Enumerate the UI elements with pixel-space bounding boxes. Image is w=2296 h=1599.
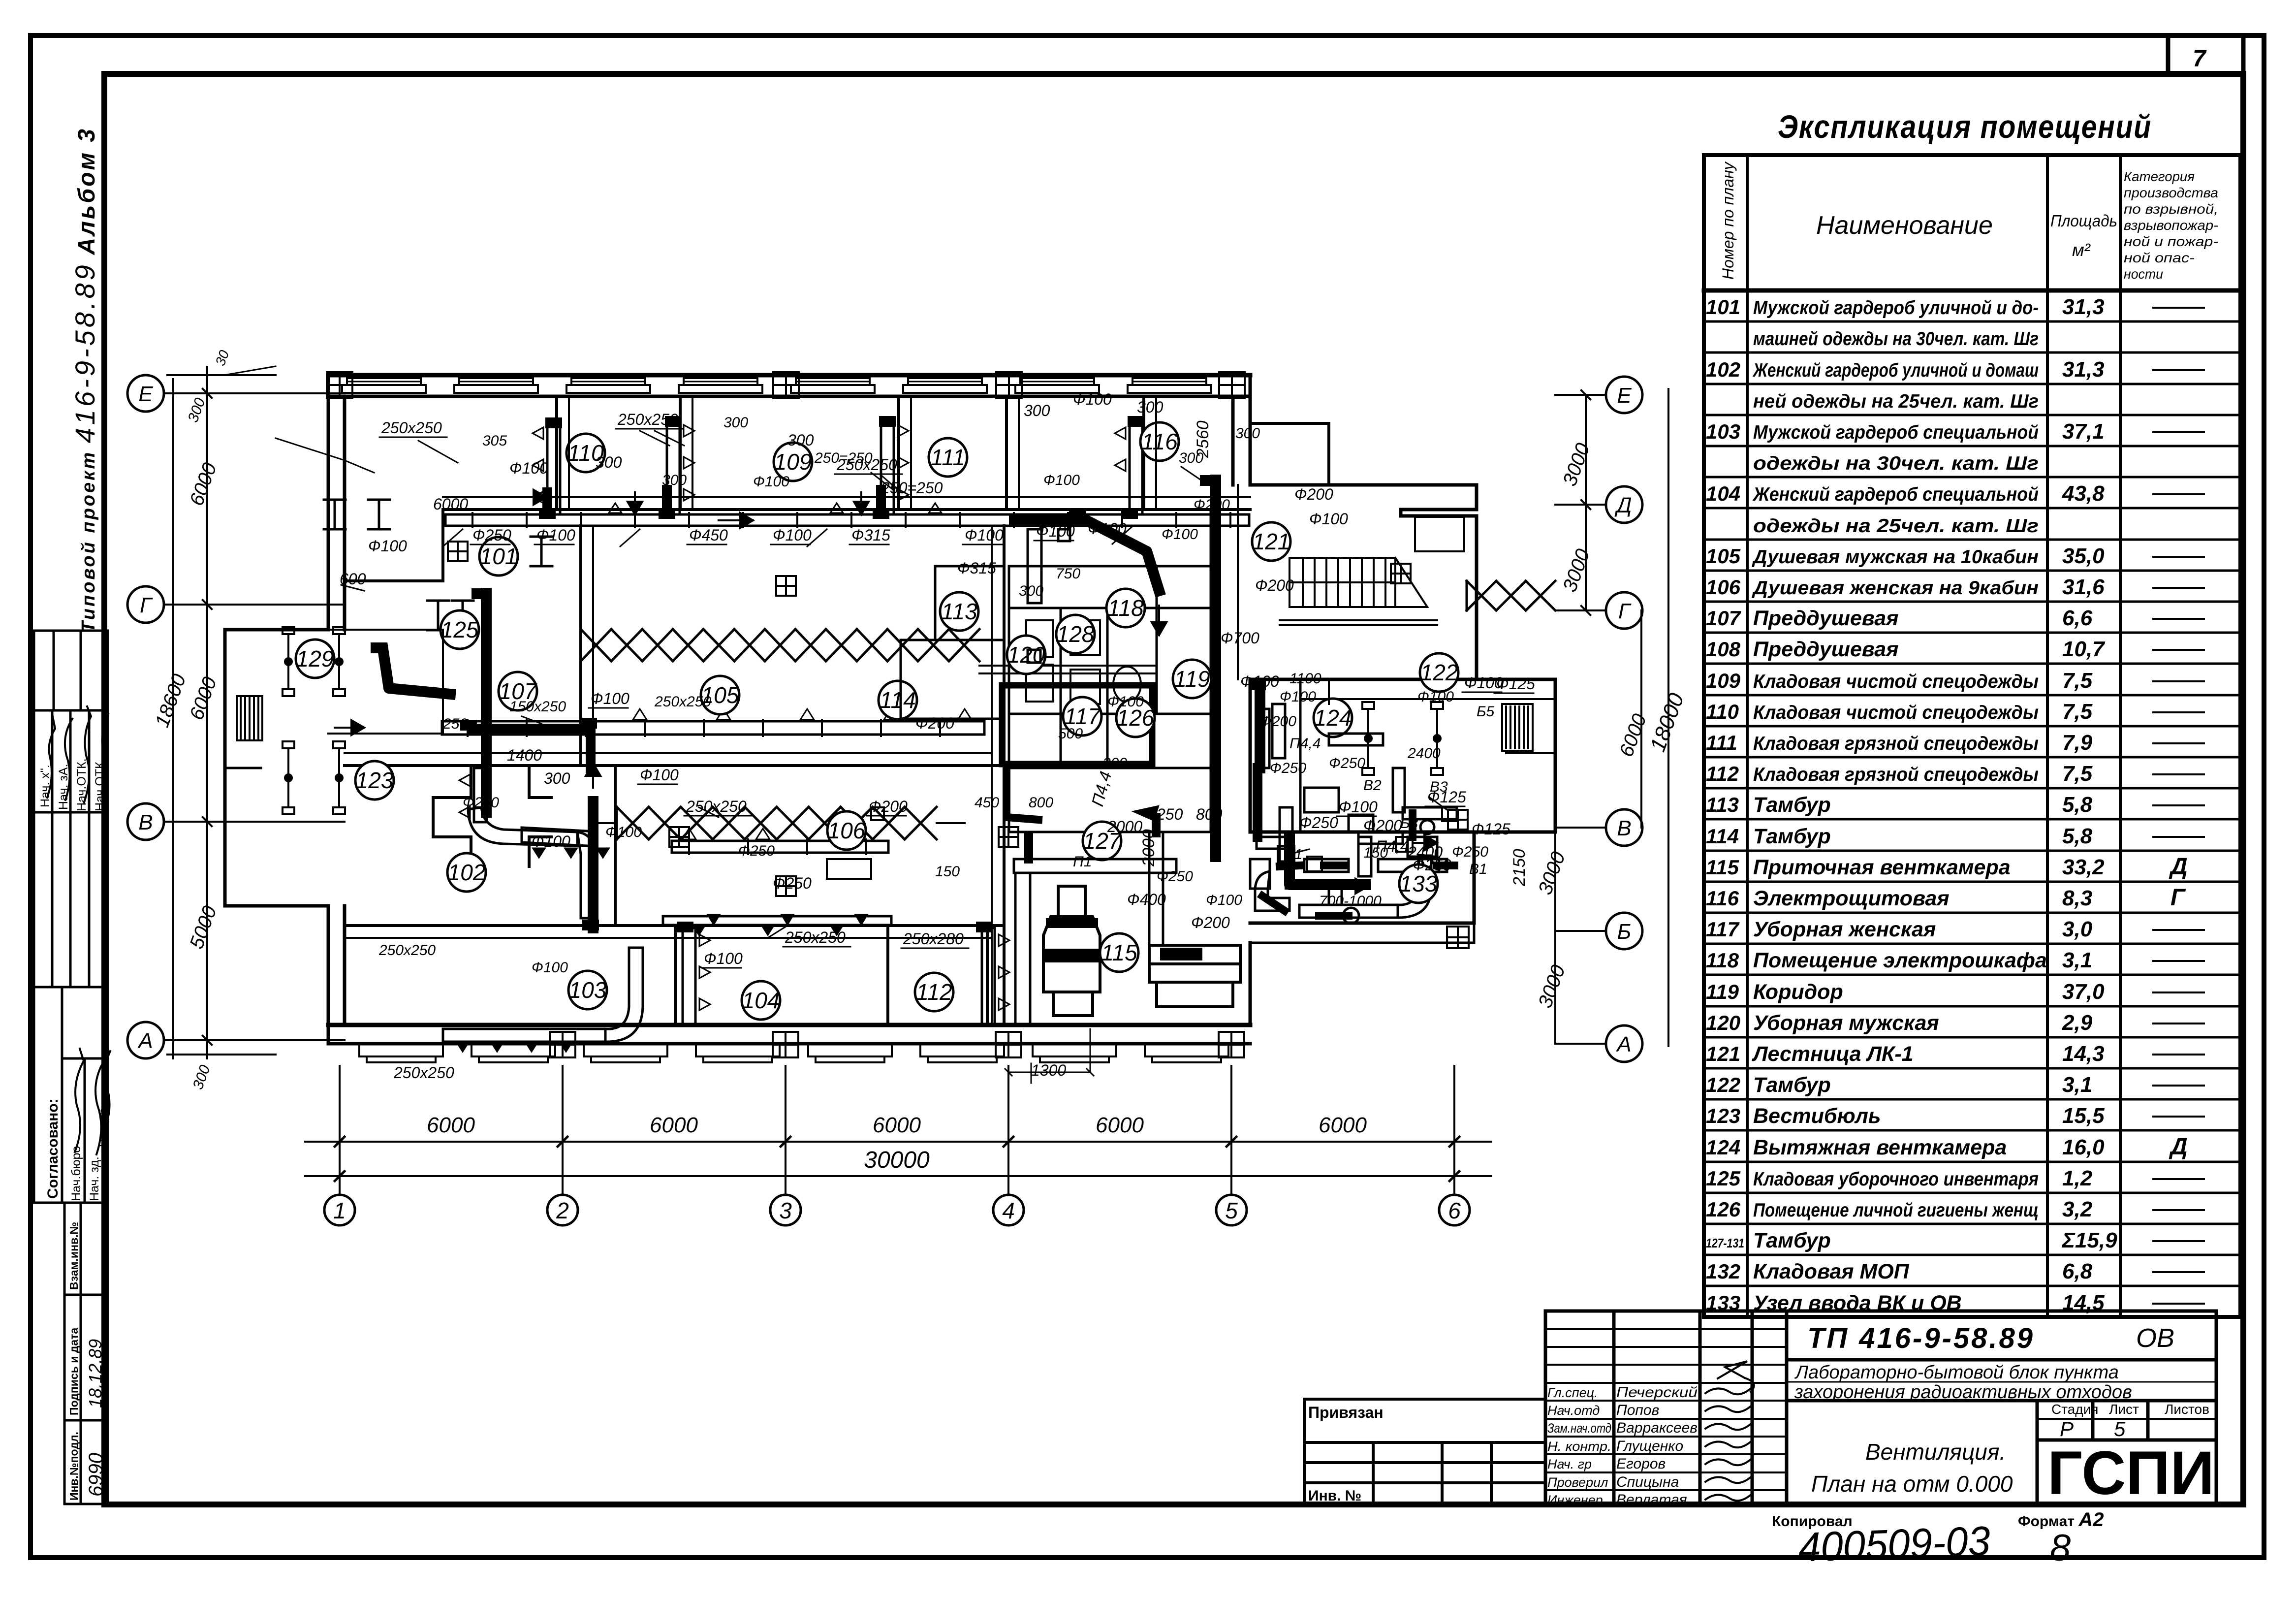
duct cluster room 127 (1014, 832, 1176, 1024)
svg-text:Н. контр.: Н. контр. (1547, 1439, 1611, 1454)
room 123 partial walls (433, 766, 551, 866)
svg-text:127-131: 127-131 (1706, 1236, 1744, 1250)
svg-text:111: 111 (931, 445, 965, 470)
svg-text:14,3: 14,3 (2062, 1042, 2105, 1066)
extra black thick runs (472, 490, 1312, 885)
svg-text:Тамбур: Тамбур (1753, 1229, 1831, 1252)
svg-text:Ф100: Ф100 (536, 526, 575, 544)
svg-text:Б5: Б5 (1477, 704, 1495, 720)
svg-text:Ф200: Ф200 (1255, 576, 1294, 594)
svg-text:300: 300 (787, 431, 814, 449)
bottom axis extension lines (340, 1066, 1454, 1194)
svg-text:Ф100: Ф100 (1464, 674, 1503, 692)
svg-text:В: В (1617, 816, 1631, 840)
svg-text:П1: П1 (1073, 854, 1092, 870)
svg-text:10,7: 10,7 (2062, 637, 2106, 661)
svg-text:ТП 416-9-58.89: ТП 416-9-58.89 (1807, 1322, 2035, 1354)
svg-text:м²: м² (2072, 240, 2091, 260)
explication header texts (1719, 161, 2218, 282)
svg-text:111: 111 (1706, 731, 1737, 754)
svg-text:Ф100: Ф100 (532, 832, 570, 850)
svg-text:110: 110 (1706, 700, 1739, 723)
svg-text:8,3: 8,3 (2062, 886, 2092, 910)
small arrows on ducts (335, 490, 1437, 894)
svg-text:1: 1 (333, 1198, 346, 1223)
left stamp rotated texts (38, 758, 109, 1201)
svg-text:Ф315: Ф315 (957, 559, 996, 577)
small square column marks inside plan (776, 576, 796, 596)
svg-text:Б3: Б3 (1400, 815, 1418, 831)
svg-text:103: 103 (569, 977, 607, 1003)
122 door grille (1502, 704, 1533, 751)
room 115 equipment (1043, 886, 1240, 1016)
right axis circles (1606, 377, 1642, 413)
svg-text:Ф250: Ф250 (472, 526, 511, 544)
svg-text:Ф100: Ф100 (965, 526, 1004, 544)
svg-text:Приточная венткамера: Приточная венткамера (1753, 856, 2011, 879)
svg-text:6000: 6000 (1096, 1113, 1144, 1137)
duct elbows annex (468, 807, 596, 918)
svg-text:Р: Р (2060, 1417, 2074, 1440)
svg-text:133: 133 (1400, 871, 1438, 896)
duct crossing marks in 106 (596, 807, 965, 879)
svg-text:Ф200: Ф200 (463, 795, 499, 811)
svg-text:по взрывной,: по взрывной, (2124, 201, 2218, 217)
svg-text:7,5: 7,5 (2062, 669, 2093, 693)
svg-text:Г: Г (1618, 599, 1632, 623)
svg-text:6000: 6000 (1319, 1113, 1367, 1137)
stairs (1280, 558, 1437, 625)
svg-text:3,2: 3,2 (2062, 1197, 2093, 1221)
svg-text:В1: В1 (1285, 846, 1303, 863)
svg-text:Инженер: Инженер (1547, 1493, 1603, 1507)
svg-text:800: 800 (1196, 805, 1223, 823)
right vertical dimension lines (1555, 389, 1668, 1046)
svg-text:Ф100: Ф100 (640, 766, 679, 784)
svg-text:3,1: 3,1 (2062, 948, 2092, 972)
duct run from 102 up (443, 948, 643, 1042)
svg-text:Е: Е (1617, 384, 1632, 408)
svg-text:Ф100: Ф100 (1206, 892, 1242, 908)
svg-text:31,6: 31,6 (2062, 575, 2105, 599)
svg-text:16,0: 16,0 (2062, 1135, 2105, 1159)
svg-text:ности: ности (2124, 266, 2163, 282)
svg-text:Ф450: Ф450 (689, 526, 728, 544)
svg-text:6990: 6990 (85, 1453, 107, 1497)
extra duct elbows 133 (1250, 832, 1431, 924)
svg-text:Наименование: Наименование (1816, 211, 1993, 240)
svg-text:150x250: 150x250 (509, 699, 566, 715)
svg-text:Инв. №: Инв. № (1308, 1488, 1361, 1504)
svg-text:123: 123 (356, 768, 394, 793)
svg-text:250x250: 250x250 (381, 419, 442, 437)
svg-text:Ф100: Ф100 (605, 824, 642, 840)
svg-text:Ф100: Ф100 (368, 537, 407, 555)
duct joint ticks on mains (468, 513, 1230, 854)
svg-text:Ф200: Ф200 (1294, 485, 1333, 503)
small zigzag right (1467, 581, 1555, 610)
small attach table bottom-left of title block (1304, 1399, 1545, 1504)
explication table grid (1704, 155, 2240, 1317)
wc fixtures (1026, 620, 1141, 704)
svg-text:5,8: 5,8 (2062, 824, 2093, 848)
svg-text:8: 8 (2050, 1527, 2071, 1569)
svg-text:Д: Д (1614, 493, 1632, 517)
svg-text:15,5: 15,5 (2062, 1104, 2105, 1128)
svg-text:Кладовая чистой спецодежды: Кладовая чистой спецодежды (1753, 702, 2039, 723)
svg-text:6,6: 6,6 (2062, 606, 2093, 630)
svg-text:114: 114 (880, 687, 915, 713)
svg-text:Экспликация помещений: Экспликация помещений (1778, 108, 2152, 145)
svg-text:ной опас-: ной опас- (2124, 250, 2195, 265)
svg-text:Кладовая чистой спецодежды: Кладовая чистой спецодежды (1753, 671, 2039, 692)
svg-text:Варраксеев: Варраксеев (1616, 1420, 1698, 1436)
svg-text:В1: В1 (1469, 861, 1487, 877)
svg-text:31,3: 31,3 (2062, 357, 2105, 382)
svg-text:Привязан: Привязан (1308, 1404, 1384, 1421)
svg-text:3: 3 (779, 1198, 792, 1223)
extra window mullion lines top wall (347, 381, 1206, 383)
svg-text:112: 112 (916, 979, 952, 1005)
stair block 121 outline (1250, 485, 1477, 679)
dim 1300 under fan (1005, 1029, 1094, 1076)
svg-text:Попов: Попов (1616, 1402, 1659, 1418)
explication table rows (1704, 308, 2240, 1317)
left margin inventory table (Взам.инв / Подпись и дата / Инв.подл.) (64, 1203, 108, 1504)
svg-text:108: 108 (1706, 638, 1741, 661)
svg-text:31,3: 31,3 (2062, 295, 2105, 319)
thick duct elbow room 101 (383, 480, 1366, 928)
svg-text:Листов: Листов (2165, 1402, 2209, 1417)
svg-text:Нач.ОТК.: Нач.ОТК. (75, 758, 89, 811)
left stamp signatures (scribbles) (47, 706, 110, 1154)
svg-text:Кладовая уборочного инвентаря: Кладовая уборочного инвентаря (1753, 1169, 2039, 1190)
extra annotations dense band (378, 415, 1495, 976)
svg-text:Категория: Категория (2124, 169, 2195, 184)
svg-text:П4,4: П4,4 (1290, 736, 1321, 752)
svg-text:1100: 1100 (1290, 671, 1321, 687)
svg-text:Тамбур: Тамбур (1753, 793, 1831, 817)
svg-text:Нач.бюро: Нач.бюро (69, 1146, 83, 1201)
svg-text:115: 115 (1101, 940, 1137, 965)
svg-text:В3: В3 (1430, 779, 1448, 795)
svg-text:Г: Г (2170, 885, 2186, 911)
svg-text:2150: 2150 (1510, 849, 1529, 887)
svg-text:Б: Б (1617, 920, 1632, 944)
svg-text:Проверил: Проверил (1547, 1475, 1608, 1490)
svg-text:Верлатая: Верлатая (1616, 1492, 1687, 1508)
svg-text:Гл.спец.: Гл.спец. (1547, 1385, 1598, 1400)
svg-text:300: 300 (1235, 425, 1260, 442)
svg-text:6000: 6000 (873, 1113, 921, 1137)
svg-text:117: 117 (1706, 918, 1740, 941)
left axis circles (127, 375, 164, 412)
svg-text:2400: 2400 (1407, 745, 1441, 762)
svg-text:Коридор: Коридор (1753, 980, 1843, 1004)
svg-text:Уборная мужская: Уборная мужская (1753, 1011, 1939, 1035)
svg-text:115: 115 (1706, 856, 1739, 879)
svg-text:124: 124 (1314, 705, 1352, 731)
svg-text:Женский гардероб уличной и дом: Женский гардероб уличной и домаш (1752, 360, 2039, 381)
svg-text:Ф250: Ф250 (1270, 760, 1306, 776)
svg-text:Преддушевая: Преддушевая (1753, 638, 1899, 661)
svg-text:взрывопожар-: взрывопожар- (2124, 218, 2218, 233)
svg-text:Ф100: Ф100 (704, 950, 743, 967)
svg-text:Тамбур: Тамбур (1753, 1073, 1831, 1097)
duct size annotations (340, 390, 1535, 1082)
interior cluster walls (117/120/126/128/118) (1009, 510, 1211, 832)
left margin document designation rotated text (69, 127, 100, 633)
svg-text:109: 109 (1706, 669, 1741, 692)
svg-text:Уборная женская: Уборная женская (1753, 918, 1936, 941)
svg-text:107: 107 (1706, 607, 1741, 630)
svg-text:300: 300 (1024, 402, 1050, 419)
left annex outline (rooms 129/123) (225, 630, 328, 906)
zigzag band room 105 (581, 629, 979, 661)
vertical duct risers with register triangles (547, 423, 560, 514)
svg-text:125: 125 (1706, 1167, 1741, 1190)
svg-text:300: 300 (1179, 450, 1203, 466)
svg-text:Ф250: Ф250 (738, 843, 775, 859)
page number box top-right (2168, 35, 2243, 74)
thick elbow below cluster (1006, 768, 1038, 820)
title block texts (1547, 1322, 2214, 1508)
svg-text:7,5: 7,5 (2062, 762, 2093, 786)
svg-text:Женский гардероб специальной: Женский гардероб специальной (1752, 484, 2039, 505)
duct hangers triangles (633, 709, 647, 720)
filled arrow in 126 (1132, 805, 1159, 821)
svg-text:Ф100: Ф100 (591, 690, 629, 707)
svg-text:101: 101 (480, 544, 518, 569)
svg-text:105: 105 (1706, 544, 1741, 568)
bottom captions (1772, 46, 2207, 1570)
svg-text:Д: Д (2169, 1134, 2188, 1160)
svg-text:37,0: 37,0 (2062, 980, 2105, 1004)
svg-text:250=250: 250=250 (814, 450, 873, 466)
svg-text:18.12.89: 18.12.89 (85, 1339, 105, 1408)
svg-text:250x250: 250x250 (393, 1064, 454, 1082)
svg-text:750: 750 (1056, 566, 1080, 582)
building top wall with windows (328, 375, 1250, 396)
svg-text:6: 6 (1448, 1198, 1461, 1223)
svg-text:Ф100: Ф100 (1043, 472, 1080, 488)
svg-text:Ф250: Ф250 (773, 874, 812, 892)
duct crossing cluster (979, 510, 1211, 832)
svg-text:6000: 6000 (427, 1113, 475, 1137)
svg-text:Инв.№подл.: Инв.№подл. (67, 1432, 80, 1501)
svg-text:300: 300 (1019, 583, 1043, 599)
svg-text:30000: 30000 (864, 1147, 930, 1173)
corridor duct riser near 113 (1028, 529, 1070, 663)
room 121 canopy hatch (1415, 517, 1464, 551)
svg-text:33,2: 33,2 (2062, 855, 2105, 879)
svg-text:Ф100: Ф100 (509, 459, 548, 477)
bottom dimension line 6000 segments (305, 1137, 1491, 1181)
left annex door grille (237, 696, 262, 740)
svg-text:106: 106 (828, 818, 866, 843)
svg-text:Тамбур: Тамбур (1753, 825, 1831, 848)
svg-text:113: 113 (941, 599, 977, 624)
svg-text:1,2: 1,2 (2062, 1166, 2093, 1190)
top wall axis column marks (327, 372, 352, 398)
tambour partitions 113/114 (901, 566, 1004, 719)
svg-text:Ф100: Ф100 (1088, 520, 1127, 538)
svg-text:400509-03: 400509-03 (1797, 1517, 1991, 1570)
svg-text:План на отм 0.000: План на отм 0.000 (1811, 1471, 2013, 1497)
svg-text:129: 129 (296, 646, 334, 672)
svg-text:Душевая мужская на 10кабин: Душевая мужская на 10кабин (1752, 546, 2039, 568)
svg-text:121: 121 (1253, 529, 1290, 554)
svg-text:Вестибюль: Вестибюль (1753, 1104, 1881, 1128)
svg-text:Ф125: Ф125 (1472, 820, 1510, 838)
svg-text:300: 300 (1102, 755, 1127, 771)
rotated small dims (1088, 420, 1529, 887)
svg-text:Помещение электрошкафа: Помещение электрошкафа (1753, 949, 2047, 972)
room 116 right bump (1250, 423, 1329, 485)
svg-text:126: 126 (1706, 1198, 1741, 1221)
block 133 outline (1250, 832, 1474, 943)
svg-text:250x250: 250x250 (654, 694, 711, 710)
svg-text:ной и пожар-: ной и пожар- (2124, 234, 2218, 249)
svg-text:300: 300 (596, 453, 622, 471)
svg-text:300: 300 (723, 415, 748, 431)
svg-text:ОВ: ОВ (2136, 1323, 2174, 1353)
svg-text:305: 305 (482, 433, 507, 449)
svg-text:116: 116 (1706, 887, 1739, 910)
svg-text:2000: 2000 (1107, 818, 1142, 835)
svg-text:300: 300 (1137, 398, 1164, 416)
title block signature rows (1545, 1329, 1787, 1490)
svg-text:Кладовая грязной спецодежды: Кладовая грязной спецодежды (1753, 733, 2039, 754)
title block outer (1545, 1311, 2216, 1504)
svg-text:Ф100: Ф100 (1339, 798, 1378, 816)
svg-text:Лабораторно-бытовой блок пункт: Лабораторно-бытовой блок пункта (1794, 1362, 2119, 1383)
black register boxes at riser junctions (371, 416, 1266, 932)
svg-text:Ф100: Ф100 (773, 526, 812, 544)
svg-text:109: 109 (774, 449, 812, 475)
svg-text:А: А (137, 1029, 153, 1053)
svg-text:6000: 6000 (650, 1113, 698, 1137)
svg-text:ней одежды на 25чел. кат. Шг: ней одежды на 25чел. кат. Шг (1753, 391, 2039, 412)
svg-text:500: 500 (1058, 726, 1083, 742)
svg-text:Помещение личной гигиены женщ: Помещение личной гигиены женщ (1753, 1200, 2039, 1221)
svg-text:Ф700: Ф700 (1221, 629, 1259, 647)
leader polylines for labels (276, 431, 1447, 938)
svg-text:101: 101 (1706, 295, 1740, 319)
svg-text:Е: Е (138, 382, 153, 406)
svg-text:захоронения радиоактивных отхо: захоронения радиоактивных отходов (1794, 1382, 2132, 1403)
svg-text:машней одежды на 30чел. кат. Ш: машней одежды на 30чел. кат. Шг (1753, 328, 2039, 350)
svg-text:Ф200: Ф200 (1260, 713, 1296, 730)
svg-text:450: 450 (975, 795, 999, 811)
svg-text:одежды на 30чел. кат. Шг: одежды на 30чел. кат. Шг (1753, 453, 2039, 474)
svg-text:Кладовая МОП: Кладовая МОП (1753, 1260, 1910, 1283)
more hanger triangles (609, 503, 942, 925)
svg-text:118: 118 (1706, 949, 1739, 972)
svg-text:43,8: 43,8 (2062, 481, 2105, 506)
title block signatures scribbles (1705, 1361, 1754, 1501)
svg-text:2,9: 2,9 (2062, 1011, 2093, 1035)
svg-text:В2: В2 (1363, 777, 1382, 794)
svg-text:Стадия: Стадия (2051, 1402, 2098, 1417)
svg-text:Ф400: Ф400 (1127, 891, 1166, 908)
svg-text:700-1000: 700-1000 (1319, 893, 1382, 909)
svg-text:7,5: 7,5 (2062, 700, 2093, 724)
svg-text:35,0: 35,0 (2062, 544, 2105, 568)
svg-text:одежды на 25чел. кат. Шг: одежды на 25чел. кат. Шг (1753, 515, 2039, 537)
svg-text:4: 4 (1002, 1198, 1015, 1223)
svg-text:Кладовая грязной спецодежды: Кладовая грязной спецодежды (1753, 764, 2039, 785)
svg-text:Глущенко: Глущенко (1616, 1438, 1683, 1454)
interior walls top rooms (345, 396, 1250, 581)
svg-text:122: 122 (1420, 660, 1458, 685)
thick duct loop around 117 (1002, 685, 1152, 764)
svg-text:119: 119 (1174, 666, 1210, 692)
svg-text:104: 104 (1706, 482, 1740, 505)
svg-text:250x250: 250x250 (686, 798, 747, 815)
svg-text:3,0: 3,0 (2062, 917, 2093, 941)
svg-text:122: 122 (1706, 1073, 1740, 1096)
svg-text:5: 5 (1225, 1198, 1238, 1223)
svg-text:102: 102 (1706, 358, 1740, 381)
svg-text:Ф100: Ф100 (1280, 689, 1316, 705)
left annex window pin symbols (283, 627, 294, 696)
svg-text:113: 113 (1706, 793, 1739, 816)
svg-text:116: 116 (1141, 429, 1178, 454)
svg-text:3,1: 3,1 (2062, 1073, 2092, 1097)
svg-text:128: 128 (1057, 621, 1095, 647)
svg-text:Σ15,9: Σ15,9 (2061, 1228, 2117, 1252)
svg-text:Нач. зд.: Нач. зд. (88, 1156, 101, 1201)
svg-text:Площадь: Площадь (2050, 212, 2117, 230)
svg-text:Лист: Лист (2109, 1402, 2139, 1417)
svg-text:Печерский: Печерский (1616, 1384, 1698, 1401)
svg-text:Ф100: Ф100 (1107, 694, 1144, 710)
leader arrows (418, 431, 1031, 1083)
svg-text:119: 119 (1706, 980, 1739, 1003)
svg-text:Г: Г (140, 593, 153, 617)
svg-text:1400: 1400 (507, 746, 542, 764)
svg-text:Ф315: Ф315 (851, 526, 890, 544)
svg-text:В: В (138, 810, 153, 834)
small fitting boxes (1278, 807, 1457, 872)
building left wall (328, 375, 345, 1044)
title block right area dividers (1787, 1360, 2216, 1504)
svg-text:Ф100: Ф100 (1073, 390, 1112, 408)
svg-text:Спицына: Спицына (1616, 1474, 1679, 1490)
svg-text:Ф100: Ф100 (1309, 510, 1348, 528)
svg-text:Ф250: Ф250 (1329, 755, 1365, 771)
svg-text:6,8: 6,8 (2062, 1259, 2093, 1283)
svg-text:Номер по плану: Номер по плану (1719, 161, 1737, 280)
main supply duct under top rooms (442, 514, 1249, 925)
svg-text:124: 124 (1706, 1136, 1740, 1159)
svg-text:5,8: 5,8 (2062, 793, 2093, 817)
124 area duct fittings (1272, 704, 1437, 857)
svg-text:Преддушевая: Преддушевая (1753, 607, 1899, 630)
svg-text:Нач. гр: Нач. гр (1547, 1457, 1592, 1471)
svg-text:Вытяжная венткамера: Вытяжная венткамера (1753, 1136, 2007, 1159)
svg-text:Д: Д (2169, 854, 2188, 880)
svg-text:132: 132 (1706, 1260, 1740, 1283)
svg-text:123: 123 (1706, 1104, 1740, 1127)
svg-text:А: А (1615, 1032, 1631, 1056)
building right wall segments (1233, 375, 1250, 1025)
svg-text:Мужской гардероб специальной: Мужской гардероб специальной (1753, 422, 2039, 443)
svg-text:150: 150 (935, 863, 960, 880)
svg-text:Ф250: Ф250 (1452, 844, 1488, 860)
svg-text:Взам.инв.№: Взам.инв.№ (67, 1222, 80, 1290)
